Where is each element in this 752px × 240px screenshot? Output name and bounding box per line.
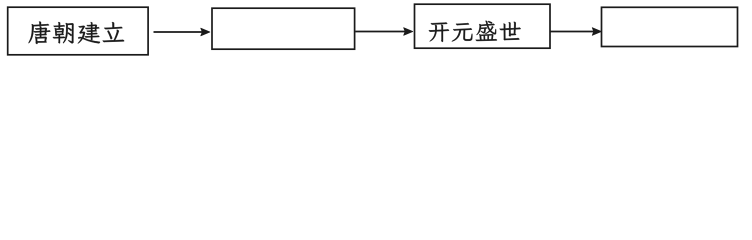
box 4 (blank) [602,7,738,46]
box 1 (唐朝建立) [8,7,148,55]
wire arrow 2 [356,28,413,36]
box 3 (开元盛世) [415,4,551,48]
wire arrow 1 [154,28,210,36]
label 唐朝建立 [29,22,125,45]
label 开元盛世 [429,21,521,42]
wire arrow 3 [551,28,602,36]
box 2 (blank) [212,8,355,49]
